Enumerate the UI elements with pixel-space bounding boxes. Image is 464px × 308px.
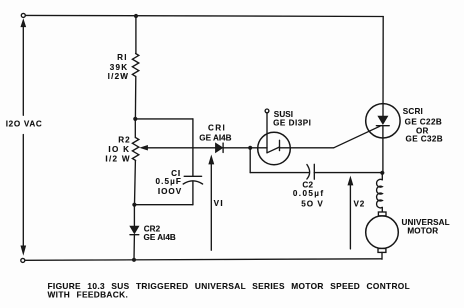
wire C1 branch down — [192, 119, 194, 176]
wire node C to SUS1 — [250, 147, 267, 149]
junction node C (CR1/SUS/C2 branch) — [248, 146, 252, 150]
svg-text:39K: 39K — [110, 63, 129, 72]
svg-text:RI: RI — [117, 53, 128, 62]
wire motor to bottom rail — [381, 252, 383, 259]
svg-text:GE C32B: GE C32B — [406, 135, 444, 144]
wire CR1 cathode to node C — [223, 147, 250, 149]
junction node B (R2/CR2/C1) — [132, 203, 136, 207]
svg-text:I/2W: I/2W — [108, 72, 130, 81]
wire bottom rail — [25, 259, 382, 261]
svg-text:0.05µf: 0.05µf — [293, 189, 325, 198]
wire SCR cathode down — [382, 126, 384, 173]
wire R1 bottom to node A — [134, 76, 136, 119]
svg-text:CR2: CR2 — [144, 224, 161, 233]
SCR1 circle — [366, 104, 400, 138]
wire node C down for C2 — [249, 148, 251, 173]
potentiometer R2 — [132, 138, 138, 161]
SCR1 anode triangle — [378, 116, 388, 124]
svg-text:WITH FEEDBACK.: WITH FEEDBACK. — [48, 290, 129, 300]
wire to C2 — [250, 172, 309, 174]
source arrow down — [22, 135, 24, 247]
motor brush top — [378, 212, 386, 216]
svg-text:CRI: CRI — [208, 124, 226, 133]
SUS cathode bar — [279, 140, 281, 150]
V1 measurement arrow — [210, 164, 212, 251]
wire R1 top — [135, 16, 137, 54]
wire R2 bottom to node B — [134, 160, 137, 204]
wire node A to C1 branch — [135, 118, 193, 120]
svg-text:SUSI: SUSI — [274, 110, 293, 119]
junction node top rail / R1 — [134, 14, 138, 18]
junction node bottom rail / CR2 — [132, 258, 136, 262]
svg-text:I/2 W: I/2 W — [105, 155, 130, 164]
svg-text:IOOV: IOOV — [158, 187, 182, 196]
SUS U1 circle — [258, 132, 291, 165]
source terminal top — [21, 13, 25, 17]
svg-text:GE C22B: GE C22B — [405, 118, 443, 127]
source arrow up — [22, 27, 24, 116]
svg-text:SCRI: SCRI — [403, 107, 423, 116]
resistor R1 — [132, 54, 138, 77]
wire CR2 cathode to bottom rail — [133, 235, 135, 260]
motor brush bottom — [378, 249, 386, 253]
capacitor C1 — [184, 175, 201, 177]
wire top rail — [26, 15, 384, 16]
svg-text:VI: VI — [214, 199, 224, 208]
wire SUS to gate line — [280, 147, 334, 149]
svg-text:0.5µF: 0.5µF — [156, 177, 182, 186]
wire C1 bottom — [192, 182, 194, 205]
V2 measurement arrow — [349, 185, 351, 249]
svg-text:IO K: IO K — [108, 145, 130, 154]
junction node A (R1/R2/C1 branch) — [133, 117, 137, 121]
R2 wiper arrow — [147, 147, 216, 149]
capacitor C2 — [307, 165, 310, 180]
SUS gate terminal — [265, 109, 269, 113]
svg-text:MOTOR: MOTOR — [407, 227, 438, 236]
motor M1 body — [366, 216, 399, 249]
svg-text:UNIVERSAL: UNIVERSAL — [402, 218, 450, 227]
svg-text:V2: V2 — [354, 199, 366, 208]
svg-text:R2: R2 — [118, 136, 130, 145]
wire R2 top — [134, 119, 136, 138]
SCR1 cathode bar — [376, 125, 389, 127]
svg-text:GE AI4B: GE AI4B — [144, 233, 176, 242]
svg-text:GE AI4B: GE AI4B — [199, 134, 231, 143]
svg-text:GE DI3PI: GE DI3PI — [273, 119, 311, 128]
svg-text:I2O VAC: I2O VAC — [6, 119, 43, 128]
wire SUS gate lead — [266, 113, 268, 153]
diode CR1 — [216, 143, 223, 152]
svg-text:5O V: 5O V — [301, 200, 324, 209]
junction node D (SCR/C2/motor) — [380, 171, 384, 175]
SUS anode arm — [267, 147, 280, 153]
wire SCR anode drop — [382, 17, 384, 117]
wire C2 to node D — [314, 172, 382, 174]
inductor motor field coil — [381, 173, 383, 180]
wire SCR gate diagonal — [334, 126, 380, 148]
wire node B to C1 — [134, 204, 193, 206]
source terminal bottom — [21, 258, 25, 262]
diode CR2 — [133, 205, 135, 226]
